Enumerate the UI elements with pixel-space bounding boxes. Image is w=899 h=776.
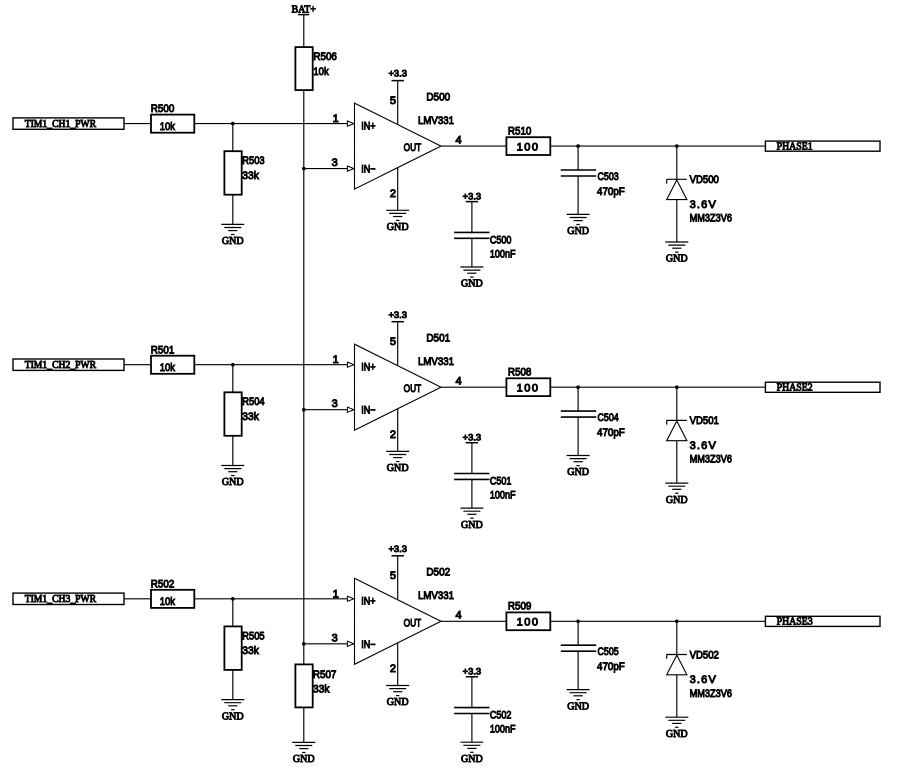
svg-text:MM3Z3V6: MM3Z3V6	[690, 454, 732, 466]
svg-text:3: 3	[332, 632, 338, 644]
svg-text:OUT: OUT	[404, 383, 422, 395]
svg-text:5: 5	[390, 95, 396, 107]
svg-text:R503: R503	[242, 155, 264, 167]
svg-text:GND: GND	[293, 753, 315, 765]
svg-text:C501: C501	[490, 476, 512, 488]
svg-text:GND: GND	[666, 728, 688, 740]
svg-text:VD500: VD500	[690, 174, 719, 186]
svg-text:IN−: IN−	[361, 405, 375, 417]
svg-text:10k: 10k	[160, 596, 176, 608]
svg-text:1: 1	[333, 588, 339, 600]
svg-text:GND: GND	[222, 235, 244, 247]
svg-text:C503: C503	[598, 171, 619, 183]
svg-text:GND: GND	[461, 753, 483, 765]
svg-text:C500: C500	[490, 235, 512, 247]
svg-text:5: 5	[390, 570, 396, 582]
svg-text:33k: 33k	[242, 411, 259, 423]
svg-text:470pF: 470pF	[597, 186, 625, 198]
svg-text:R508: R508	[508, 367, 532, 379]
svg-text:10k: 10k	[160, 362, 176, 374]
svg-text:100: 100	[517, 617, 538, 629]
svg-text:33k: 33k	[313, 684, 330, 696]
svg-text:D501: D501	[426, 333, 450, 345]
svg-text:GND: GND	[387, 462, 409, 474]
svg-text:3.6V: 3.6V	[690, 440, 717, 452]
svg-text:3.6V: 3.6V	[690, 199, 717, 211]
svg-text:1: 1	[333, 354, 339, 366]
svg-text:LMV331: LMV331	[418, 356, 454, 368]
svg-text:GND: GND	[387, 696, 409, 708]
svg-text:TIM1_CH1_PWR: TIM1_CH1_PWR	[25, 118, 97, 130]
svg-text:GND: GND	[222, 710, 244, 722]
svg-text:100: 100	[517, 383, 538, 395]
svg-text:VD501: VD501	[690, 415, 719, 427]
svg-text:470pF: 470pF	[597, 661, 625, 673]
svg-text:BAT+: BAT+	[291, 3, 316, 15]
svg-text:3.6V: 3.6V	[690, 674, 717, 686]
svg-text:10k: 10k	[160, 121, 176, 133]
svg-text:C502: C502	[490, 710, 512, 722]
svg-text:VD502: VD502	[690, 649, 719, 661]
svg-text:R510: R510	[508, 125, 532, 137]
svg-text:C505: C505	[598, 646, 619, 658]
svg-text:IN−: IN−	[361, 639, 375, 651]
svg-text:GND: GND	[567, 466, 589, 478]
svg-text:100: 100	[517, 142, 538, 154]
svg-text:D500: D500	[426, 91, 450, 103]
svg-text:OUT: OUT	[404, 142, 422, 154]
svg-text:R509: R509	[508, 601, 532, 613]
svg-text:GND: GND	[567, 225, 589, 237]
svg-text:IN+: IN+	[361, 596, 375, 608]
svg-text:GND: GND	[666, 253, 688, 265]
svg-text:C504: C504	[598, 412, 619, 424]
svg-text:+3.3: +3.3	[388, 544, 407, 555]
svg-text:100nF: 100nF	[490, 249, 516, 261]
svg-text:2: 2	[390, 188, 396, 200]
svg-text:TIM1_CH2_PWR: TIM1_CH2_PWR	[25, 359, 97, 371]
svg-text:PHASE1: PHASE1	[777, 141, 813, 153]
svg-text:LMV331: LMV331	[418, 590, 454, 602]
svg-text:100nF: 100nF	[490, 490, 516, 502]
svg-text:R504: R504	[242, 396, 264, 408]
svg-text:+3.3: +3.3	[463, 432, 482, 443]
svg-text:GND: GND	[222, 476, 244, 488]
svg-text:+3.3: +3.3	[463, 191, 482, 202]
svg-text:+3.3: +3.3	[388, 310, 407, 321]
svg-text:MM3Z3V6: MM3Z3V6	[690, 688, 732, 700]
svg-text:+3.3: +3.3	[463, 667, 482, 678]
svg-text:MM3Z3V6: MM3Z3V6	[690, 213, 732, 225]
svg-text:5: 5	[390, 336, 396, 348]
svg-text:GND: GND	[387, 221, 409, 233]
svg-text:IN−: IN−	[361, 164, 375, 176]
svg-text:TIM1_CH3_PWR: TIM1_CH3_PWR	[25, 593, 97, 605]
svg-text:PHASE3: PHASE3	[777, 616, 814, 628]
svg-text:GND: GND	[567, 700, 589, 712]
svg-text:GND: GND	[461, 519, 483, 531]
svg-text:4: 4	[456, 376, 462, 388]
svg-text:R502: R502	[151, 578, 175, 590]
svg-text:33k: 33k	[242, 645, 259, 657]
svg-text:R500: R500	[151, 103, 175, 115]
svg-text:IN+: IN+	[361, 120, 375, 132]
svg-text:33k: 33k	[242, 170, 259, 182]
svg-text:GND: GND	[461, 278, 483, 290]
svg-text:+3.3: +3.3	[388, 69, 407, 80]
svg-text:R507: R507	[313, 669, 337, 681]
svg-text:4: 4	[456, 135, 462, 147]
svg-text:2: 2	[390, 663, 396, 675]
svg-text:R505: R505	[242, 630, 264, 642]
svg-text:PHASE2: PHASE2	[777, 382, 813, 394]
svg-text:3: 3	[332, 157, 338, 169]
svg-text:LMV331: LMV331	[418, 115, 454, 127]
svg-text:3: 3	[332, 398, 338, 410]
svg-text:4: 4	[456, 610, 462, 622]
svg-text:D502: D502	[426, 567, 450, 579]
svg-text:IN+: IN+	[361, 362, 375, 374]
svg-text:470pF: 470pF	[597, 427, 625, 439]
svg-text:OUT: OUT	[404, 617, 422, 629]
svg-text:1: 1	[333, 113, 339, 125]
svg-text:GND: GND	[666, 494, 688, 506]
svg-text:R501: R501	[151, 344, 175, 356]
svg-text:R506: R506	[313, 51, 337, 63]
svg-text:100nF: 100nF	[490, 724, 516, 736]
svg-text:10k: 10k	[313, 66, 329, 78]
svg-text:2: 2	[390, 429, 396, 441]
